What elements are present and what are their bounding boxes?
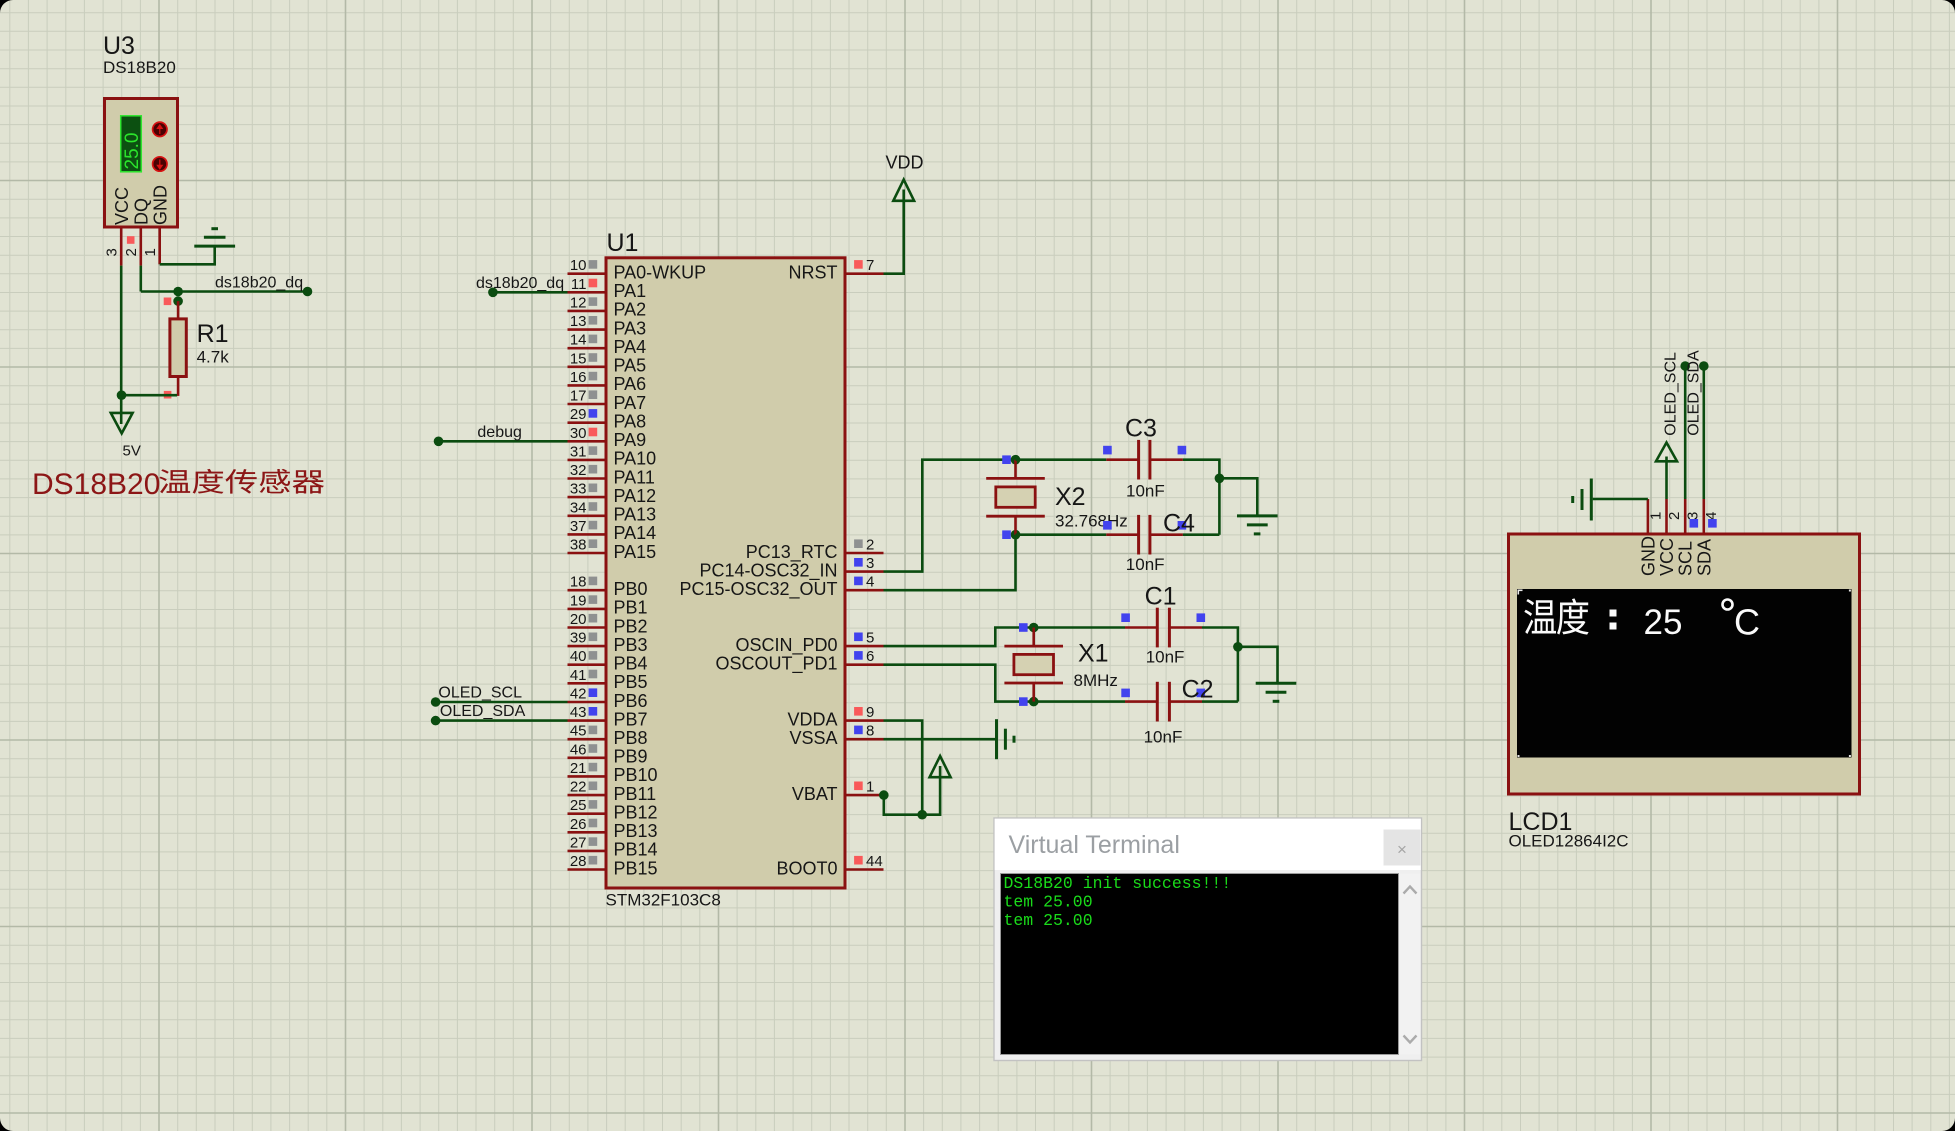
mcu U1 body	[606, 258, 845, 888]
svg-text:debug: debug	[477, 424, 522, 441]
svg-text:40: 40	[570, 648, 587, 665]
svg-text:3: 3	[866, 555, 874, 572]
wire X2 top rail to C3	[1016, 458, 1107, 461]
svg-text:PA10: PA10	[614, 449, 657, 469]
svg-text:20: 20	[570, 611, 587, 628]
capacitor C3	[1106, 440, 1183, 480]
LCD1 screen text ℃	[1723, 600, 1733, 610]
wire VDDA down	[884, 721, 923, 815]
svg-text:7: 7	[866, 257, 874, 274]
svg-text:PA12: PA12	[614, 486, 657, 506]
svg-text:5: 5	[866, 630, 874, 647]
svg-text:PB5: PB5	[614, 672, 648, 692]
power symbol VDD at VBAT (up arrow)	[930, 756, 951, 777]
svg-text:PB8: PB8	[614, 728, 648, 748]
svg-text:42: 42	[570, 686, 587, 703]
svg-text:PB10: PB10	[614, 765, 658, 785]
window corner bottom-left	[0, 1118, 13, 1131]
svg-text:PB4: PB4	[614, 654, 648, 674]
svg-text:PA13: PA13	[614, 505, 657, 525]
svg-text:PB6: PB6	[614, 691, 648, 711]
U1 pin 18 (PB0)	[568, 574, 648, 599]
svg-text:4: 4	[866, 574, 874, 591]
power symbol VDD (up arrow)	[893, 180, 914, 201]
svg-text:C3: C3	[1125, 415, 1157, 443]
svg-text:VDD: VDD	[885, 153, 923, 173]
U1 pin 11 (PA1)	[568, 276, 647, 301]
U1 pin 1 (VBAT)	[792, 779, 884, 804]
caption DS18B20 temperature sensor (Chinese)	[32, 468, 324, 501]
svg-text:41: 41	[570, 667, 587, 684]
svg-text:×: ×	[1397, 840, 1407, 859]
svg-text:OLED12864I2C: OLED12864I2C	[1509, 832, 1629, 851]
U1 pin 22 (PB11)	[568, 779, 657, 804]
resistor R1	[170, 301, 186, 396]
C1 state square right	[1197, 613, 1206, 622]
svg-text:VDDA: VDDA	[787, 709, 837, 729]
svg-text:3: 3	[1685, 512, 1702, 520]
node junction 5V rail	[117, 390, 127, 400]
svg-text:ds18b20_dq: ds18b20_dq	[476, 275, 564, 292]
U1 pin 29 (PA8)	[568, 406, 647, 431]
node junction X2 bottom	[1011, 530, 1021, 540]
svg-text:29: 29	[570, 406, 587, 423]
U1 pin 46 (PB9)	[568, 741, 648, 766]
U1 pin 44 (BOOT0)	[776, 853, 883, 878]
ground (X1 circuit)	[1256, 683, 1297, 701]
U1 pin 2 (PC13_RTC)	[746, 537, 884, 563]
svg-text:C1: C1	[1145, 582, 1177, 610]
svg-text:PA2: PA2	[614, 300, 647, 320]
C4 state square right	[1178, 521, 1187, 530]
node terminal ds18b20_dq right end	[303, 287, 313, 297]
wire C1 to right vertical	[1202, 628, 1238, 702]
U1 pin 4 (PC15-OSC32_OUT)	[679, 574, 883, 600]
U1 pin 14 (PA4)	[568, 332, 647, 357]
node junction R1 top	[173, 296, 183, 306]
svg-text:DS18B20 init success!!!: DS18B20 init success!!!	[1004, 874, 1232, 893]
svg-text:OSCOUT_PD1: OSCOUT_PD1	[715, 654, 837, 675]
svg-text:43: 43	[570, 704, 587, 721]
svg-text:X2: X2	[1055, 483, 1086, 511]
node junction X1 bottom	[1029, 697, 1039, 707]
node junction VBAT	[879, 790, 889, 800]
X2 pin state square top	[1002, 455, 1011, 464]
svg-text:C: C	[1734, 602, 1760, 643]
svg-text:1: 1	[142, 248, 159, 256]
wire U3 GND to ground	[160, 246, 215, 264]
svg-text:16: 16	[570, 369, 587, 386]
U1 pin 21 (PB10)	[568, 760, 658, 785]
svg-text:PB0: PB0	[614, 579, 648, 599]
svg-text:5V: 5V	[123, 443, 141, 460]
svg-text:PB1: PB1	[614, 598, 648, 618]
svg-text:11: 11	[571, 276, 587, 293]
svg-text:U1: U1	[607, 229, 639, 257]
svg-text:33: 33	[570, 481, 587, 498]
U1 pin 30 (PA9)	[568, 425, 647, 450]
U1 pin 17 (PA7)	[568, 388, 647, 413]
U1 pin 26 (PB13)	[568, 816, 658, 841]
svg-text:27: 27	[570, 834, 587, 851]
svg-text:BOOT0: BOOT0	[776, 858, 837, 878]
svg-text:GND: GND	[1638, 536, 1658, 576]
node junction on ds18b20_dq	[173, 287, 183, 297]
svg-text:tem 25.00: tem 25.00	[1004, 911, 1093, 930]
U3 pin 2 (DQ) stub	[140, 228, 143, 266]
node terminal ds18b20_dq at PA1	[488, 288, 498, 298]
LCD1 pin 2 stub	[1665, 499, 1668, 533]
svg-text:X1: X1	[1078, 640, 1109, 668]
svg-text:PA15: PA15	[614, 542, 657, 562]
X2 pin state square bottom	[1002, 530, 1011, 539]
svg-text:OLED_SDA: OLED_SDA	[440, 703, 526, 720]
wire R1 bottom to VCC rail	[121, 394, 177, 397]
svg-text:18: 18	[570, 574, 587, 591]
U1 pin 31 (PA10)	[568, 443, 657, 468]
svg-text:2: 2	[866, 537, 874, 554]
U1 pin 39 (PB3)	[568, 630, 648, 655]
svg-text:GND: GND	[150, 185, 170, 225]
svg-text:39: 39	[570, 630, 587, 647]
sensor U3 body	[105, 99, 178, 228]
U1 pin 37 (PA14)	[568, 518, 657, 543]
wire C4 to right corner	[1183, 533, 1220, 536]
svg-text:PA14: PA14	[614, 523, 657, 543]
svg-text:PA9: PA9	[614, 430, 647, 450]
wire NRST to VDD	[884, 190, 904, 274]
svg-text:DQ: DQ	[132, 198, 152, 225]
U1 pin 33 (PA12)	[568, 481, 657, 506]
svg-text:PA11: PA11	[614, 467, 655, 487]
U1 pin 5 (OSCIN_PD0)	[735, 630, 883, 656]
svg-text:25.0: 25.0	[122, 133, 143, 170]
U1 pin 9 (VDDA)	[787, 704, 883, 729]
virtual terminal title bar	[995, 819, 1421, 870]
wire net OLED_SCL at LCD1	[1684, 366, 1687, 499]
svg-text:45: 45	[570, 723, 587, 740]
node terminal debug	[434, 437, 444, 447]
ground (X2 circuit)	[1237, 516, 1278, 534]
svg-text:1: 1	[866, 779, 874, 796]
U1 pin 13 (PA3)	[568, 313, 647, 338]
virtual terminal close button	[1384, 830, 1421, 866]
svg-text:C4: C4	[1163, 510, 1195, 538]
X1 pin state square bottom	[1019, 697, 1028, 706]
svg-text:PA1: PA1	[614, 281, 647, 301]
svg-text:4: 4	[1703, 512, 1720, 520]
U1 pin 42 (PB6)	[568, 686, 648, 711]
svg-text:PC15-OSC32_OUT: PC15-OSC32_OUT	[679, 579, 837, 600]
svg-text:37: 37	[570, 518, 587, 535]
U1 pin 27 (PB14)	[568, 834, 658, 859]
capacitor C2	[1125, 682, 1202, 722]
wire VBAT to VDD rail	[884, 766, 940, 815]
U1 pin 20 (PB2)	[568, 611, 648, 636]
svg-text:PB11: PB11	[614, 784, 657, 804]
wire OSCOUT_PD1 to X1 bottom rail	[884, 665, 1126, 702]
wire C2 to right vertical	[1202, 700, 1238, 703]
wire net OLED_SDA to PB7	[436, 719, 568, 722]
svg-text:6: 6	[866, 648, 874, 665]
node terminal OLED_SDA	[431, 716, 441, 726]
virtual terminal screen	[1001, 874, 1399, 1055]
U1 pin 16 (PA6)	[568, 369, 647, 394]
svg-text:34: 34	[570, 499, 587, 516]
U1 pin 25 (PB12)	[568, 797, 658, 822]
ground (inverted, above U3 GND)	[194, 229, 235, 246]
wire net ds18b20_dq to PA1	[493, 291, 568, 294]
virtual terminal window frame	[994, 818, 1422, 1061]
svg-text:C2: C2	[1182, 676, 1214, 704]
U3 decrement button	[153, 157, 167, 171]
U1 pin 12 (PA2)	[568, 294, 647, 319]
capacitor C4	[1106, 515, 1183, 555]
wire net debug to PA9	[439, 440, 568, 443]
svg-text:10nF: 10nF	[1126, 555, 1165, 574]
virtual terminal scrollbar	[1400, 874, 1421, 1055]
U1 pin 34 (PA13)	[568, 499, 657, 524]
svg-text:PB3: PB3	[614, 635, 648, 655]
svg-text:NRST: NRST	[789, 263, 838, 283]
svg-text:10nF: 10nF	[1126, 482, 1165, 501]
LCD1 pin 4 stub	[1703, 499, 1706, 533]
svg-text:PB7: PB7	[614, 709, 648, 729]
U1 pin 41 (PB5)	[568, 667, 648, 692]
U1 pin 19 (PB1)	[568, 592, 648, 617]
C3 state square left	[1103, 446, 1112, 455]
crystal X1	[1004, 628, 1063, 702]
svg-text:PA4: PA4	[614, 337, 647, 357]
power symbol VCC arrow at LCD1	[1656, 443, 1677, 500]
svg-text:PA3: PA3	[614, 318, 647, 338]
svg-text:Virtual Terminal: Virtual Terminal	[1009, 831, 1180, 859]
U1 pin 7 (NRST)	[789, 257, 884, 282]
U3 increment button	[153, 122, 167, 136]
wire U3 DQ down	[140, 266, 143, 292]
LCD1 screen text 温度:	[1524, 598, 1616, 634]
node junction VDDA/VBAT rail	[917, 810, 927, 820]
node terminal OLED_SDA top	[1699, 361, 1709, 371]
wire X2 ground tap	[1219, 478, 1257, 516]
wire X2 bottom rail to C4	[1016, 533, 1107, 536]
svg-text:PA6: PA6	[614, 374, 647, 394]
svg-text:tem 25.00: tem 25.00	[1004, 893, 1093, 912]
svg-text:13: 13	[570, 313, 587, 330]
svg-text:10: 10	[570, 257, 587, 274]
svg-text:PA0-WKUP: PA0-WKUP	[614, 263, 707, 283]
U1 pin 10 (PA0-WKUP)	[568, 257, 707, 282]
node junction X1 ground tap	[1233, 642, 1243, 652]
C3 state square right	[1178, 446, 1187, 455]
U1 pin 40 (PB4)	[568, 648, 648, 673]
wire LCD1 GND to ground	[1593, 498, 1648, 501]
svg-text:10nF: 10nF	[1144, 728, 1183, 747]
U1 pin 38 (PA15)	[568, 537, 657, 562]
C4 state square left	[1103, 521, 1112, 530]
wire PC15 to X2 bottom rail	[884, 535, 1016, 591]
svg-text:4.7k: 4.7k	[197, 348, 230, 367]
window corner top-left	[0, 0, 13, 13]
C2 state square left	[1121, 689, 1130, 698]
U1 pin 43 (PB7)	[568, 704, 648, 729]
svg-text:2: 2	[123, 248, 140, 256]
svg-text:26: 26	[570, 816, 587, 833]
svg-text:25: 25	[570, 797, 587, 814]
U3 DQ state square	[127, 236, 135, 244]
LCD1 screen	[1517, 589, 1852, 758]
window corner bottom-right	[1942, 1118, 1955, 1131]
svg-text:2: 2	[1666, 512, 1683, 520]
svg-text:25: 25	[1644, 603, 1683, 642]
svg-text:DS18B20: DS18B20	[32, 468, 160, 501]
svg-text:OLED_SCL: OLED_SCL	[438, 685, 522, 702]
X1 pin state square top	[1019, 623, 1028, 632]
svg-text:21: 21	[570, 760, 587, 777]
svg-text:PB9: PB9	[614, 747, 648, 767]
node junction X1 top	[1029, 623, 1039, 633]
U3 pin 1 (GND) stub	[158, 228, 161, 265]
node junction X2 ground tap	[1215, 474, 1225, 484]
crystal X2	[986, 460, 1045, 535]
svg-text:19: 19	[570, 592, 587, 609]
svg-text:PB2: PB2	[614, 616, 648, 636]
wire U3 VCC down	[120, 266, 123, 396]
wire net OLED_SDA at LCD1	[1703, 366, 1706, 499]
C1 state square left	[1121, 613, 1130, 622]
wire X1 ground tap	[1238, 647, 1278, 684]
svg-text:17: 17	[570, 388, 587, 405]
ground (LCD1, rotated left)	[1573, 479, 1592, 521]
svg-text:OLED_SCL: OLED_SCL	[1663, 352, 1680, 436]
svg-text:22: 22	[570, 779, 587, 796]
U1 pin 8 (VSSA)	[789, 723, 883, 748]
svg-text:SDA: SDA	[1694, 539, 1714, 576]
LCD1 SCL state square	[1690, 519, 1699, 528]
svg-text:28: 28	[570, 853, 587, 870]
svg-text:PB13: PB13	[614, 821, 658, 841]
U1 pin 3 (PC14-OSC32_IN)	[699, 555, 883, 581]
svg-text:PA8: PA8	[614, 412, 647, 432]
node terminal OLED_SCL	[431, 697, 441, 707]
svg-text:8MHz: 8MHz	[1074, 671, 1118, 690]
wire net ds18b20_dq (left)	[141, 290, 308, 293]
svg-text:U3: U3	[103, 32, 135, 60]
node junction X2 top	[1011, 455, 1021, 465]
LCD1 pin 1 stub	[1647, 499, 1650, 533]
svg-text:PA7: PA7	[614, 393, 647, 413]
wire PC14 to X2 top rail	[884, 460, 1016, 572]
svg-text:SCL: SCL	[1676, 541, 1696, 576]
svg-text:VCC: VCC	[112, 187, 132, 225]
svg-text:R1: R1	[197, 320, 229, 348]
svg-text:32: 32	[570, 462, 587, 479]
U1 pin 45 (PB8)	[568, 723, 648, 748]
capacitor C1	[1125, 608, 1202, 648]
U1 pin 28 (PB15)	[568, 853, 658, 878]
U1 pin 32 (PA11)	[568, 462, 655, 487]
svg-text:12: 12	[570, 294, 587, 311]
U1 pin 15 (PA5)	[568, 350, 647, 375]
svg-text:44: 44	[866, 853, 883, 870]
U3 temperature display	[121, 116, 143, 172]
svg-text:1: 1	[1647, 512, 1664, 520]
svg-text:PA5: PA5	[614, 356, 647, 376]
svg-text:VBAT: VBAT	[792, 784, 838, 804]
svg-text:3: 3	[104, 248, 121, 256]
R1 top state square	[164, 298, 172, 306]
svg-text:PB15: PB15	[614, 858, 658, 878]
svg-text:DS18B20: DS18B20	[103, 58, 176, 77]
svg-text:PB12: PB12	[614, 803, 658, 823]
svg-text:31: 31	[570, 443, 587, 460]
svg-text:30: 30	[570, 425, 587, 442]
display LCD1 body	[1509, 534, 1860, 794]
svg-text:10nF: 10nF	[1146, 648, 1185, 667]
svg-text:14: 14	[570, 332, 587, 349]
svg-text:VCC: VCC	[1657, 538, 1677, 576]
wire net OLED_SCL to PB6	[436, 701, 568, 704]
svg-text:OLED_SDA: OLED_SDA	[1685, 350, 1702, 436]
window corner top-right	[1942, 0, 1955, 13]
R1 bottom state square	[164, 391, 172, 399]
wire VSSA to ground	[884, 738, 996, 741]
node terminal OLED_SCL top	[1680, 361, 1690, 371]
svg-text:46: 46	[570, 741, 587, 758]
svg-text:PB14: PB14	[614, 840, 658, 860]
LCD1 SDA state square	[1708, 519, 1717, 528]
svg-text:38: 38	[570, 537, 587, 554]
U3 pin 3 (VCC) stub	[120, 228, 123, 266]
wire OSCIN_PD0 to X1 top rail	[884, 628, 1126, 647]
svg-text:32.768Hz: 32.768Hz	[1055, 512, 1128, 531]
svg-text:ds18b20_dq: ds18b20_dq	[215, 275, 303, 292]
power symbol 5V (down arrow)	[111, 395, 133, 433]
svg-text:15: 15	[570, 350, 587, 367]
C2 state square right	[1197, 689, 1206, 698]
ground (VSSA, rotated right)	[997, 719, 1015, 759]
svg-text:9: 9	[866, 704, 874, 721]
LCD1 screen corner marks	[1518, 590, 1851, 758]
LCD1 pin 3 stub	[1684, 499, 1687, 533]
U1 pin 6 (OSCOUT_PD1)	[715, 648, 883, 674]
svg-text:8: 8	[866, 723, 874, 740]
svg-text:STM32F103C8: STM32F103C8	[606, 891, 721, 910]
svg-text:VSSA: VSSA	[789, 728, 837, 748]
wire C3 to right corner	[1183, 460, 1220, 535]
